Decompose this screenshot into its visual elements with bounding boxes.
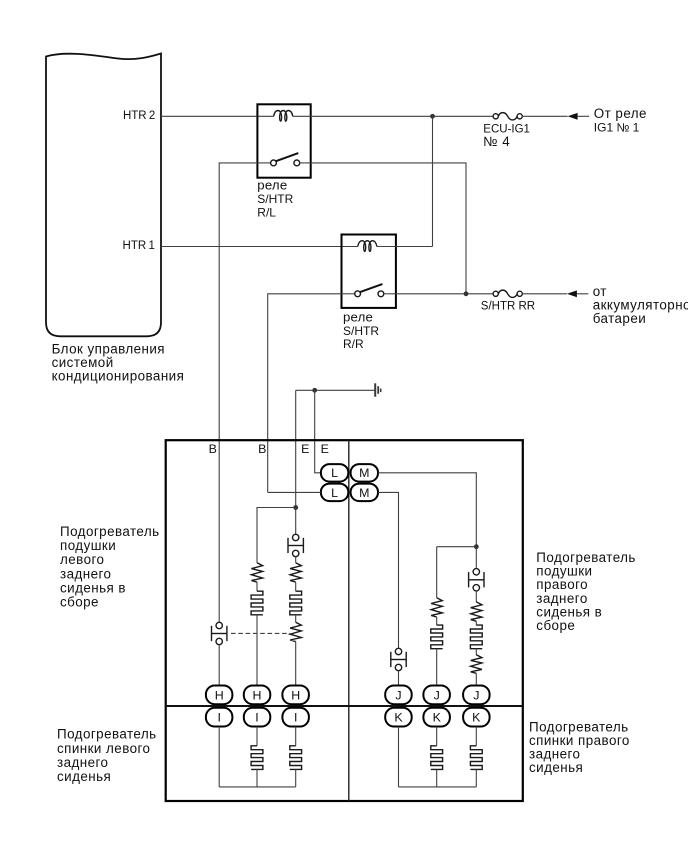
svg-text:IG1 № 1: IG1 № 1	[594, 121, 640, 135]
svg-text:HTR 1: HTR 1	[123, 240, 155, 252]
svg-text:кондиционирования: кондиционирования	[52, 368, 185, 383]
ECU block: A/C control unit	[46, 54, 161, 337]
svg-text:E: E	[321, 442, 329, 456]
svg-text:H: H	[253, 688, 262, 702]
ground	[375, 383, 381, 396]
resistor right column lower	[471, 655, 482, 674]
junction: relay outputs to battery fuse	[464, 291, 469, 296]
svg-text:Подогреватель: Подогреватель	[60, 524, 160, 539]
thermal switch J1 column	[391, 648, 406, 670]
svg-text:S/HTR: S/HTR	[343, 324, 379, 338]
fuse S/HTR RR	[493, 290, 522, 297]
resistor middle-right column	[431, 598, 442, 617]
heater element mid column	[251, 591, 263, 615]
wire branch left to middle heater column	[257, 508, 296, 563]
fuse ECU-IG1 № 4	[493, 113, 522, 120]
junction: HTR1 branch joins IG1 line	[430, 114, 435, 119]
label: реле S/HTR R/R	[343, 309, 379, 351]
central divider	[348, 440, 350, 801]
label fuse ECU-IG1 № 4	[483, 124, 530, 149]
svg-text:сиденья: сиденья	[57, 769, 111, 784]
wire E2 column from ground dot to L row1	[315, 390, 321, 473]
connector K at x=436.7	[423, 708, 450, 727]
svg-text:H: H	[291, 688, 300, 702]
wire I1 to bottom bus	[218, 727, 220, 787]
relay R/L switch	[257, 153, 310, 166]
heater element middle-right column	[431, 625, 443, 649]
connector L row1	[321, 464, 348, 482]
label: Подогреватель спинки левого заднего сиденья	[57, 727, 157, 784]
wire relay R/L switch right to battery fuse line	[311, 163, 466, 294]
svg-text:От реле: От реле	[594, 106, 647, 121]
wire relay R/R switch left to B2 column	[268, 294, 342, 493]
relay R/L coil	[274, 111, 293, 122]
svg-text:спинки левого: спинки левого	[57, 741, 150, 756]
wire fuse to arrow	[522, 115, 567, 117]
svg-text:S/HTR: S/HTR	[257, 192, 293, 206]
svg-text:L: L	[331, 466, 338, 480]
svg-text:Подогреватель: Подогреватель	[57, 727, 157, 742]
arrow: from battery	[567, 290, 588, 297]
junction right column	[474, 544, 479, 549]
wire B1 column down to H1	[218, 645, 220, 686]
bottom bus right	[399, 786, 477, 788]
svg-text:заднего: заднего	[60, 566, 111, 581]
svg-text:сборе: сборе	[60, 595, 99, 610]
wire to ground	[296, 389, 375, 391]
label: реле S/HTR R/L	[257, 178, 293, 220]
heater element right column	[470, 625, 482, 649]
svg-text:J: J	[434, 688, 440, 702]
wire HTR1 from ECU to relay R/R coil	[161, 246, 358, 248]
resistor right column upper	[471, 602, 482, 621]
relay R/R coil	[358, 241, 377, 252]
connector J at x=476.3	[463, 686, 490, 705]
connector I at x=257	[244, 708, 270, 727]
dashed thermal link	[231, 632, 290, 634]
resistor left cushion mid column	[251, 563, 262, 582]
svg-text:K: K	[394, 711, 403, 725]
wire K1 to bottom bus	[398, 727, 400, 787]
connector M row2	[351, 484, 378, 502]
svg-text:E: E	[301, 442, 309, 456]
connector I at x=295.7	[282, 708, 309, 727]
svg-text:S/HTR RR: S/HTR RR	[481, 301, 535, 313]
svg-text:B: B	[209, 442, 217, 456]
wire relay R/R switch right to fuse S/HTR RR	[396, 293, 493, 295]
label: Подогреватель подушки правого заднего сиденья в сборе	[536, 550, 636, 633]
thermal switch E1 column	[288, 534, 303, 556]
svg-text:M: M	[359, 486, 369, 500]
connector K at x=476.3	[463, 708, 490, 727]
label: Подогреватель спинки правого заднего сиденья	[529, 719, 630, 775]
resistor E1 column upper	[290, 563, 301, 582]
svg-text:сиденья в: сиденья в	[60, 581, 126, 596]
bottom bus left	[219, 786, 296, 788]
svg-text:L: L	[331, 486, 338, 500]
junction node on E1 column	[293, 505, 298, 510]
connector I at x=219.2	[206, 708, 233, 727]
horizontal divider	[166, 705, 523, 707]
wire E1 column from ground to switch	[295, 390, 297, 534]
junction: E2 branch on ground wire	[312, 388, 317, 393]
resistor E1 column lower	[290, 622, 301, 641]
heater element E1 column	[290, 591, 302, 615]
svg-text:I: I	[217, 711, 220, 725]
svg-text:I: I	[294, 711, 297, 725]
svg-text:J: J	[395, 688, 401, 702]
connector J at x=436.7	[423, 686, 450, 705]
connector K at x=398.5	[385, 708, 412, 727]
svg-text:подушки: подушки	[60, 538, 116, 553]
svg-text:H: H	[215, 688, 224, 702]
svg-text:сборе: сборе	[536, 618, 575, 633]
wire M row1 to right column	[378, 473, 476, 569]
svg-text:R/L: R/L	[257, 205, 276, 219]
svg-text:I: I	[255, 711, 258, 725]
wire coil to junction	[377, 246, 433, 248]
svg-text:K: K	[472, 711, 481, 725]
label: от аккумуляторной батареи	[593, 284, 688, 326]
svg-text:HTR 2: HTR 2	[123, 110, 155, 122]
thermal switch left cushion	[212, 622, 227, 644]
svg-text:сиденья: сиденья	[529, 760, 583, 775]
connector M row1	[351, 464, 378, 482]
arrow: from relay IG1	[568, 113, 589, 120]
svg-text:заднего: заднего	[57, 755, 108, 770]
wire fuse to arrow	[522, 293, 567, 295]
svg-text:R/R: R/R	[343, 337, 364, 351]
label: Подогреватель подушки левого заднего сиденья в сборе	[60, 524, 160, 610]
connector L row2	[321, 484, 348, 502]
connector H at x=295.7	[282, 686, 309, 705]
svg-text:реле: реле	[343, 309, 373, 324]
label: Блок управления системой кондиционирования	[52, 342, 185, 384]
wire coil to fuse ECU-IG1	[293, 115, 493, 117]
svg-text:батареи: батареи	[593, 311, 646, 326]
wire branch to middle-right column	[437, 546, 477, 548]
wire M row2 to J1 column	[378, 492, 399, 648]
seat back heater elements right	[436, 727, 438, 746]
heater assembly box	[166, 440, 523, 801]
relay R/R box	[342, 235, 396, 308]
relay R/L box	[257, 104, 310, 177]
seat back heater elements left	[256, 727, 258, 746]
thermal switch right cushion	[469, 569, 484, 591]
svg-text:B: B	[258, 442, 266, 456]
connector H at x=219.2	[206, 686, 233, 705]
wire B2 to L row2	[268, 491, 321, 493]
pin letters B B E E	[209, 442, 329, 456]
wire HTR2 from ECU to relay R/L coil	[161, 115, 274, 117]
svg-text:J: J	[473, 688, 479, 702]
connector J at x=398.5	[385, 686, 412, 705]
svg-text:K: K	[433, 711, 442, 725]
svg-text:реле: реле	[257, 178, 287, 193]
svg-text:№ 4: № 4	[483, 134, 510, 149]
relay R/R switch	[342, 284, 396, 297]
connector H at x=257	[244, 686, 270, 705]
wire relay R/L switch left to B1 column	[219, 163, 257, 622]
label: От реле IG1 № 1	[594, 106, 647, 135]
wire vertical junction to HTR1 line	[432, 116, 434, 246]
svg-text:левого: левого	[60, 552, 104, 567]
svg-text:M: M	[359, 466, 369, 480]
